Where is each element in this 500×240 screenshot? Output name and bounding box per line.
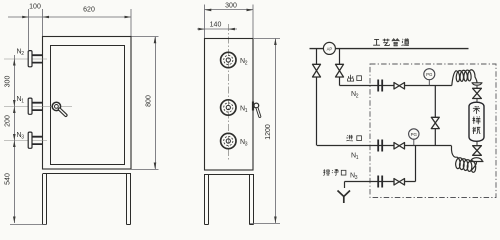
centerline <box>227 24 229 160</box>
pipe: inlet line N1 <box>317 145 452 147</box>
svg-text:300: 300 <box>225 3 237 10</box>
flange pair F3 <box>378 176 382 188</box>
svg-text:100: 100 <box>29 4 41 11</box>
dim line 300 <box>205 9 254 11</box>
dim line top <box>8 16 131 18</box>
cabinet outer box <box>43 37 132 170</box>
svg-text:200: 200 <box>5 115 12 127</box>
enclosure boundary (dash-dot box) <box>370 64 496 198</box>
door handle <box>4 102 72 115</box>
pipe: drop to outlet <box>339 49 341 86</box>
label 出口 <box>348 75 354 81</box>
svg-text:1: 1 <box>356 155 359 161</box>
upper quick-connector cup <box>472 83 483 85</box>
gauge PG2 <box>409 129 419 139</box>
lower quick-connector cap <box>470 158 484 162</box>
label 工艺管道 <box>373 39 380 45</box>
label 排净口 <box>323 169 330 175</box>
pipe: drain line N3 <box>345 181 416 183</box>
ext lines 300 <box>205 5 254 39</box>
sample bottle <box>476 99 478 102</box>
right leg <box>127 174 131 225</box>
flange circle N2 <box>221 52 236 67</box>
svg-text:540: 540 <box>5 173 12 185</box>
valve V7 (horizontal) <box>394 143 405 150</box>
svg-text:3: 3 <box>245 142 248 148</box>
dim 1200 <box>250 39 280 224</box>
cabinet bottom rail <box>43 173 132 175</box>
svg-text:2: 2 <box>21 51 24 57</box>
svg-text:1: 1 <box>245 108 248 114</box>
svg-text:140: 140 <box>210 22 222 29</box>
flange pair F2 <box>378 80 382 92</box>
svg-text:2: 2 <box>356 94 359 100</box>
svg-text:3: 3 <box>21 135 24 141</box>
label 进口 <box>346 135 352 141</box>
nozzle N3 (front) <box>4 132 47 148</box>
gauge PG1 <box>424 69 435 80</box>
svg-text:2: 2 <box>245 61 248 67</box>
flange pair F1 <box>378 140 382 152</box>
svg-text:620: 620 <box>83 7 95 14</box>
side handle <box>253 102 260 117</box>
drain funnel Y <box>338 191 351 204</box>
flange circle N1 <box>221 100 236 115</box>
pipe: drain down <box>344 182 346 189</box>
valve V3 (vertical, bottle top) <box>473 88 482 98</box>
ground extension line <box>10 224 47 226</box>
valve V4 (vertical, bottle bottom) <box>476 142 478 146</box>
label 采样瓶 <box>473 106 480 114</box>
coil (bottom hose) <box>452 146 477 173</box>
process pipeline <box>310 48 469 50</box>
nozzle N2 (front) <box>4 51 47 67</box>
side left leg <box>205 175 209 225</box>
pipe: drop to inlet <box>316 49 318 146</box>
left dim chain line <box>14 55 16 223</box>
instrument circle AP <box>323 42 335 54</box>
valve V6 (vertical bypass) <box>431 117 439 128</box>
svg-text:300: 300 <box>5 76 12 88</box>
svg-text:3: 3 <box>355 175 358 181</box>
dim 800 <box>132 37 159 170</box>
pipe: drain drop <box>415 146 417 182</box>
svg-text:PG: PG <box>426 72 433 77</box>
extension line x=28.7 <box>28 9 30 50</box>
coil (top hose) <box>452 70 477 86</box>
svg-text:800: 800 <box>146 95 153 107</box>
side cabinet box <box>205 39 254 171</box>
valve V8 (horizontal) <box>394 179 405 186</box>
valve V2 (vertical) <box>336 64 344 77</box>
side right leg <box>250 175 254 225</box>
cabinet door <box>51 46 125 165</box>
nozzle N1 (front) <box>28 98 42 114</box>
flange circle N3 <box>221 133 236 148</box>
svg-text:AP: AP <box>327 46 333 51</box>
svg-text:PG: PG <box>411 132 418 137</box>
pipe: bypass connector <box>434 86 436 146</box>
extension line x=131 <box>130 9 132 36</box>
valve V1 (vertical) <box>313 64 321 77</box>
side bottom rail <box>204 174 254 176</box>
extension line x=42.5 <box>42 9 44 36</box>
left leg <box>43 174 47 225</box>
valve V5 (horizontal) <box>394 83 405 90</box>
svg-text:1: 1 <box>21 99 24 105</box>
svg-text:1200: 1200 <box>265 124 272 140</box>
dim line 140 <box>197 28 237 30</box>
pipe: outlet line N2 <box>340 85 452 87</box>
